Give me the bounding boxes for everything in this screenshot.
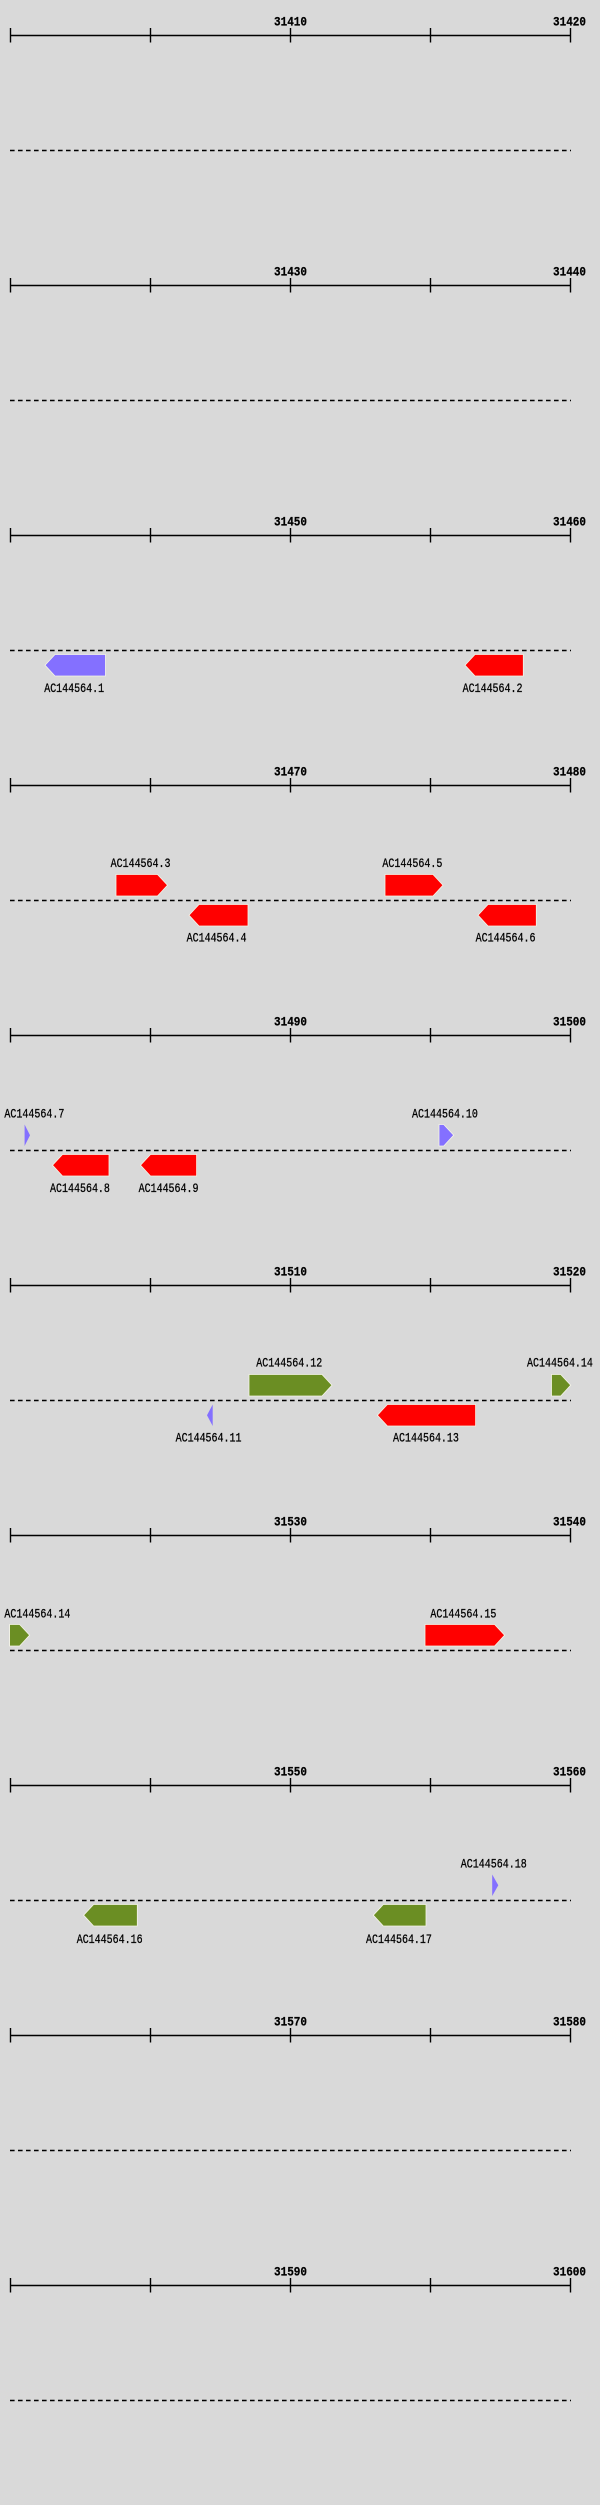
svg-text:31570: 31570 (274, 2015, 307, 2030)
dashed sequence line panel 10 (10, 2400, 571, 2402)
svg-text:31430: 31430 (274, 265, 307, 280)
gene arrow AC144564.10 (439, 1125, 454, 1147)
dashed sequence line panel 1 (10, 150, 571, 152)
ruler panel 1 (31400-31420) (10, 28, 571, 43)
svg-text:31460: 31460 (553, 515, 586, 530)
svg-text:AC144564.1: AC144564.1 (44, 682, 104, 696)
svg-text:31540: 31540 (553, 1515, 586, 1530)
svg-text:31480: 31480 (553, 765, 586, 780)
svg-text:31420: 31420 (553, 15, 586, 30)
svg-text:AC144564.6: AC144564.6 (476, 931, 536, 945)
svg-text:AC144564.5: AC144564.5 (382, 857, 442, 871)
gene arrow AC144564.14 (552, 1375, 571, 1397)
svg-text:31510: 31510 (274, 1265, 307, 1280)
ruler panel 4 (31460-31480) (10, 778, 571, 793)
svg-text:31440: 31440 (553, 265, 586, 280)
gene arrow AC144564.4 (189, 905, 248, 927)
ruler panel 7 (31520-31540) (10, 1528, 571, 1543)
gene arrow AC144564.6 (478, 905, 536, 927)
gene arrow AC144564.11 (207, 1405, 213, 1427)
svg-text:31550: 31550 (274, 1765, 307, 1780)
ruler panel 8 (31540-31560) (10, 1778, 571, 1793)
svg-text:31580: 31580 (553, 2015, 586, 2030)
dashed sequence line panel 8 (10, 1900, 571, 1902)
svg-text:AC144564.11: AC144564.11 (176, 1432, 242, 1446)
dashed sequence line panel 6 (10, 1400, 571, 1402)
svg-text:31560: 31560 (553, 1765, 586, 1780)
svg-text:AC144564.8: AC144564.8 (50, 1182, 110, 1196)
svg-text:AC144564.10: AC144564.10 (412, 1107, 478, 1121)
dashed sequence line panel 3 (10, 650, 571, 652)
svg-text:AC144564.9: AC144564.9 (139, 1182, 199, 1196)
svg-text:AC144564.16: AC144564.16 (77, 1933, 143, 1947)
gene arrow AC144564.9 (141, 1155, 197, 1177)
svg-text:AC144564.12: AC144564.12 (256, 1357, 322, 1371)
gene arrow AC144564.1 (45, 655, 106, 677)
gene arrow AC144564.2 (465, 655, 523, 677)
svg-text:31600: 31600 (553, 2265, 586, 2280)
svg-text:31520: 31520 (553, 1265, 586, 1280)
ruler panel 6 (31500-31520) (10, 1278, 571, 1293)
dashed sequence line panel 7 (10, 1650, 571, 1652)
svg-text:31450: 31450 (274, 515, 307, 530)
gene arrow AC144564.16 (84, 1905, 138, 1927)
gene arrow AC144564.7 (25, 1125, 30, 1147)
svg-text:31410: 31410 (274, 15, 307, 30)
gene arrow AC144564.18 (492, 1875, 498, 1897)
svg-text:AC144564.3: AC144564.3 (111, 857, 171, 871)
svg-text:31470: 31470 (274, 765, 307, 780)
gene arrow AC144564.5 (385, 875, 443, 897)
gene arrow AC144564.12 (249, 1375, 332, 1397)
svg-text:AC144564.18: AC144564.18 (461, 1857, 527, 1871)
ruler panel 2 (31420-31440) (10, 278, 571, 293)
gene arrow AC144564.13 (377, 1405, 475, 1427)
ruler panel 5 (31480-31500) (10, 1028, 571, 1043)
svg-text:AC144564.7: AC144564.7 (4, 1107, 64, 1121)
dashed sequence line panel 9 (10, 2150, 571, 2152)
svg-text:AC144564.17: AC144564.17 (366, 1933, 432, 1947)
svg-text:AC144564.13: AC144564.13 (393, 1432, 459, 1446)
svg-text:31490: 31490 (274, 1015, 307, 1030)
gene arrow AC144564.8 (53, 1155, 110, 1177)
svg-text:AC144564.2: AC144564.2 (463, 682, 523, 696)
ruler panel 10 (31580-31600) (10, 2278, 571, 2293)
gene arrow AC144564.14 (10, 1625, 30, 1647)
svg-text:AC144564.4: AC144564.4 (187, 931, 247, 945)
svg-text:31590: 31590 (274, 2265, 307, 2280)
gene arrow AC144564.15 (425, 1625, 505, 1647)
gene arrow AC144564.17 (373, 1905, 426, 1927)
svg-text:AC144564.14: AC144564.14 (527, 1357, 593, 1371)
svg-text:31530: 31530 (274, 1515, 307, 1530)
gene arrow AC144564.3 (116, 875, 168, 897)
dashed sequence line panel 5 (10, 1150, 571, 1152)
dashed sequence line panel 4 (10, 900, 571, 902)
svg-text:AC144564.14: AC144564.14 (4, 1608, 70, 1622)
ruler panel 3 (31440-31460) (10, 528, 571, 543)
svg-text:31500: 31500 (553, 1015, 586, 1030)
dashed sequence line panel 2 (10, 400, 571, 402)
svg-text:AC144564.15: AC144564.15 (430, 1608, 496, 1622)
ruler panel 9 (31560-31580) (10, 2028, 571, 2043)
